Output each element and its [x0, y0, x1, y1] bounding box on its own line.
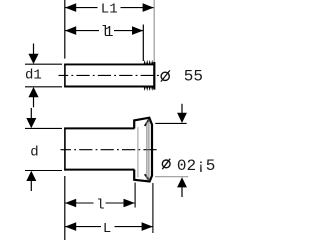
d1 extension line lower [25, 86, 62, 88]
d1 extension line upper [25, 63, 62, 65]
svg-text:1: 1 [105, 24, 114, 41]
arrowhead L left [65, 222, 76, 231]
socket mouth inner line [137, 127, 139, 177]
extension line l1 right [142, 25, 144, 62]
socket chamfer inner top [145, 118, 150, 126]
arrowhead l1 left [65, 26, 76, 35]
dimension L [65, 226, 153, 228]
label ø (diameter symbol) [161, 72, 169, 80]
serrations bottom [144, 87, 154, 91]
pipe top wall [64, 127, 134, 129]
socket outer profile [134, 118, 152, 182]
OD arrow up [181, 187, 183, 197]
svg-text:02¡5: 02¡5 [177, 157, 215, 175]
socket OD extension bottom (gray) [155, 176, 188, 178]
svg-text:L1: L1 [101, 2, 118, 18]
extension line L1 right (gray) [153, 0, 155, 62]
svg-text:L: L [103, 221, 111, 237]
arrowhead L right [142, 222, 153, 231]
extension line l right [134, 183, 136, 208]
serrations top [144, 60, 154, 64]
pipe top wall [64, 63, 154, 65]
d1 arrow lower [33, 97, 35, 107]
arrowhead l1 right [132, 26, 143, 35]
pipe left end cap [64, 128, 66, 171]
socket bore line 1 [146, 122, 148, 180]
arrowhead l left [65, 199, 76, 208]
dimension L1 [65, 7, 154, 9]
pipe bottom wall [64, 86, 154, 88]
d arrow upper [30, 108, 32, 118]
pipe bottom wall [64, 169, 134, 171]
d extension line upper [25, 127, 62, 129]
svg-text:d1: d1 [25, 68, 42, 84]
extension line left (top figure) [64, 0, 66, 59]
svg-text:l: l [96, 198, 104, 214]
extension line L right [152, 183, 154, 233]
centerline [59, 74, 161, 76]
socket OD extension top [155, 122, 186, 124]
d extension line lower [25, 170, 62, 172]
OD arrow down [181, 104, 183, 114]
arrowhead L1 right [143, 3, 154, 12]
dimension l [65, 202, 135, 204]
dimension l1 [65, 30, 143, 32]
socket chamfer inner bottom [145, 174, 150, 181]
d1 arrow upper [33, 44, 35, 55]
extension line left (bottom figure) [64, 176, 66, 240]
socket bore line 2 [148, 120, 150, 181]
svg-text:55: 55 [184, 68, 203, 86]
label ø (diameter symbol) [162, 160, 170, 168]
pipe right end cap [153, 62, 155, 90]
d arrow lower [30, 181, 32, 191]
arrowhead L1 left [65, 3, 76, 12]
centerline [61, 149, 158, 151]
svg-text:d: d [30, 144, 38, 160]
pipe left end cap [64, 64, 66, 88]
arrowhead l right [124, 199, 135, 208]
